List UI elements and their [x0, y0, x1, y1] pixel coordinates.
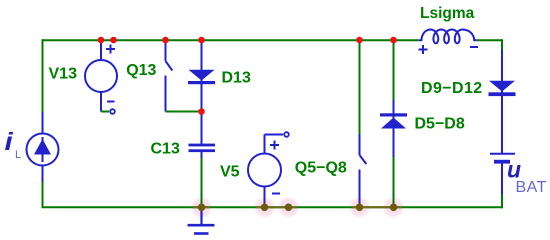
halo glows under bottom junction dots	[190, 195, 406, 219]
wire D5-D8 to bottom rail	[393, 157, 395, 207]
junction dot Q5-Q8 bottom	[356, 204, 364, 212]
V13 plus sign	[106, 45, 115, 54]
svg-text:Lsigma: Lsigma	[420, 5, 475, 22]
V5 minus sign	[272, 193, 280, 195]
wire olive tint between Q5-Q8 and D5-D8 bottom nodes	[352, 206, 402, 208]
voltage source V5	[248, 135, 283, 204]
svg-text:C13: C13	[151, 141, 180, 158]
diode D9-D12	[489, 50, 516, 153]
svg-text:D13: D13	[222, 69, 251, 86]
diode D5-D8	[393, 40, 395, 100]
junction dot top D13	[198, 37, 205, 44]
junction dot bottom rail node	[285, 204, 293, 212]
wire olive tint near ground node	[193, 206, 210, 208]
Lsigma plus sign	[419, 45, 428, 54]
V13 minus sign	[107, 101, 115, 103]
wire top rail left of inductor	[43, 39, 419, 41]
junction dot top V13	[98, 37, 105, 44]
svg-text:V5: V5	[220, 164, 240, 181]
svg-text:Q5−Q8: Q5−Q8	[295, 159, 347, 176]
junction dot top Q13	[162, 37, 169, 44]
wire bottom rail	[42, 206, 503, 208]
wire top rail right of inductor	[477, 39, 502, 41]
wire right rail bottom green segment	[501, 195, 503, 209]
junction dot D13-C13 node	[198, 108, 205, 115]
svg-text:D5−D8: D5−D8	[415, 115, 465, 132]
Lsigma minus sign	[470, 46, 478, 48]
wire stub from V13 minus	[101, 111, 109, 113]
svg-text:Q13: Q13	[126, 62, 156, 79]
wire C13 to bottom rail	[201, 158, 203, 207]
junction dot ground node	[198, 204, 206, 212]
junction dot V5 bottom	[261, 204, 269, 212]
V5 plus sign	[270, 141, 279, 150]
ground	[188, 208, 215, 234]
wire olive tint between V5 node and stub node	[256, 206, 297, 208]
wire Q5-Q8 to bottom rail	[359, 203, 361, 207]
wire right rail top green segment	[501, 39, 503, 50]
wire left rail lower	[42, 182, 44, 207]
svg-text:V13: V13	[49, 65, 78, 82]
svg-text:BAT: BAT	[516, 179, 547, 196]
junction dot top D5-D8	[390, 37, 397, 44]
junction dot top terminal node	[110, 37, 117, 44]
junction dot top Q5-Q8	[356, 37, 363, 44]
battery u_BAT	[490, 154, 515, 195]
capacitor C13	[189, 144, 216, 159]
svg-text:D9−D12: D9−D12	[421, 80, 483, 97]
switch Q5-Q8	[359, 40, 361, 134]
switch Q13	[166, 40, 173, 112]
inductor Lsigma	[419, 30, 477, 44]
open terminal of V13	[110, 109, 115, 114]
svg-text:L: L	[15, 149, 21, 161]
wire V5 to bottom rail	[264, 203, 266, 207]
wire left rail upper	[42, 39, 44, 112]
wire from Q13 bottom to D13 node	[166, 111, 202, 113]
diode D13	[188, 40, 215, 144]
current source i_L	[27, 112, 59, 182]
open terminal of V5	[284, 132, 289, 137]
voltage source V13	[85, 40, 117, 112]
junction dot D5-D8 bottom	[390, 204, 398, 212]
